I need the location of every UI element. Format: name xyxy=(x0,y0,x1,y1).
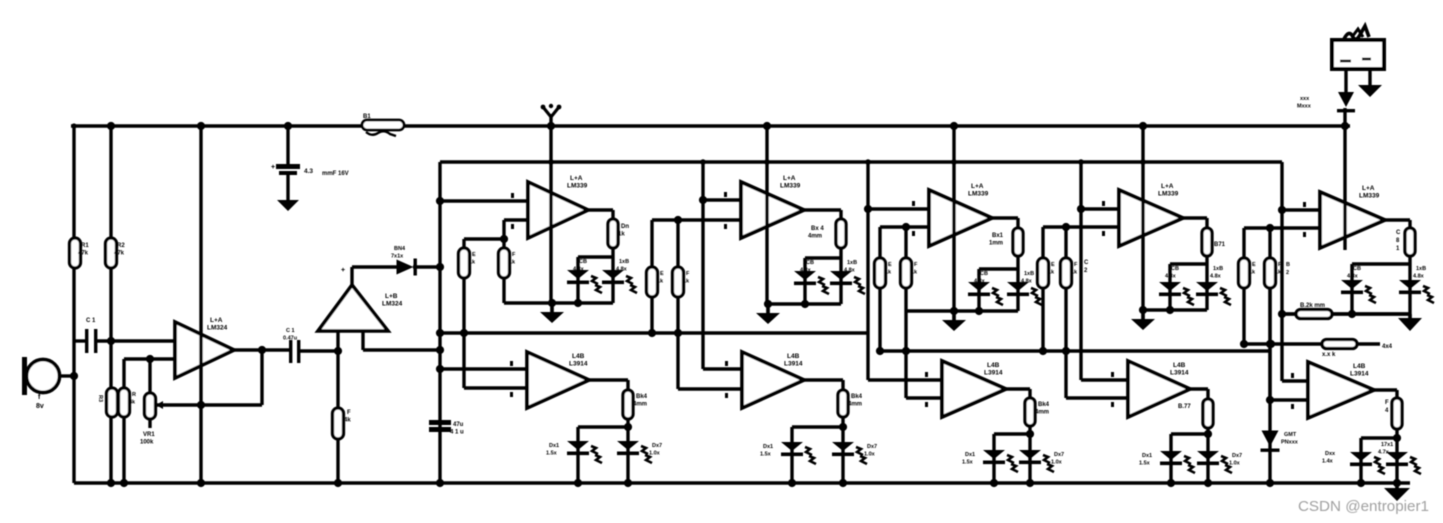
svg-text:+: + xyxy=(271,164,275,171)
svg-text:CSDN @entropier1: CSDN @entropier1 xyxy=(1298,498,1429,515)
svg-text:Dx7: Dx7 xyxy=(1232,453,1242,459)
wire U3 -input xyxy=(504,218,528,221)
svg-text:C: C xyxy=(1084,260,1089,266)
ground stage 1 xyxy=(550,303,554,312)
wire feeder - bottom stage 3 xyxy=(906,396,942,399)
svg-text:1.0x: 1.0x xyxy=(649,451,661,457)
svg-text:100k: 100k xyxy=(140,440,154,446)
diode D2 supply xyxy=(1338,92,1354,107)
LED D2 stage 1 xyxy=(567,270,589,279)
LED D21 bottom stage 5 xyxy=(1386,452,1408,461)
node top bus left corner xyxy=(71,123,76,128)
svg-text:1k: 1k xyxy=(911,270,918,276)
potentiometer VR1 xyxy=(148,359,151,393)
LED D7 stage 3 xyxy=(1007,282,1029,291)
LED D10 stage 5 xyxy=(1341,280,1363,289)
resistor R34 xyxy=(1203,399,1213,428)
op-amp U6 xyxy=(1119,190,1183,246)
svg-text:LM339: LM339 xyxy=(567,183,588,190)
wire U3 output xyxy=(588,208,613,211)
op-amp U2 buffer xyxy=(318,285,388,331)
wire vertical R4 leg xyxy=(122,359,125,483)
svg-text:C: C xyxy=(1396,230,1401,236)
wire supply through U4 xyxy=(765,126,768,304)
svg-text:4mm: 4mm xyxy=(848,402,862,408)
wire resistor row 1 xyxy=(1282,312,1296,315)
wire U11 output xyxy=(1190,387,1208,390)
svg-text:F: F xyxy=(347,410,351,416)
node divider1 on bus A xyxy=(460,329,468,337)
svg-text:L+A: L+A xyxy=(1362,185,1375,192)
LED D5 stage 2 xyxy=(830,271,852,280)
svg-text:Dx7: Dx7 xyxy=(652,443,662,449)
ground stage 3 xyxy=(952,311,956,320)
svg-text:1CB: 1CB xyxy=(977,271,988,277)
svg-text:Bx1: Bx1 xyxy=(992,233,1004,239)
svg-text:B1: B1 xyxy=(363,114,371,120)
pin marks U8 xyxy=(510,361,513,366)
svg-text:4mm: 4mm xyxy=(633,402,647,408)
svg-text:2: 2 xyxy=(1084,268,1088,274)
capacitor C2 xyxy=(289,340,292,363)
svg-text:4k: 4k xyxy=(129,400,136,406)
svg-text:8v: 8v xyxy=(36,403,44,410)
svg-text:L4B: L4B xyxy=(987,362,1000,369)
microphone MIC1 xyxy=(27,360,60,393)
wire below divider 5 xyxy=(1242,288,1245,344)
wire U7 -input xyxy=(1244,226,1320,229)
wire battery negative lead xyxy=(1368,69,1371,85)
svg-text:4.8x: 4.8x xyxy=(1413,274,1425,280)
svg-text:PNxxx: PNxxx xyxy=(1281,440,1299,446)
svg-text:Dx7: Dx7 xyxy=(1054,452,1064,458)
wire supply through U5 xyxy=(952,126,955,311)
svg-text:Bk4: Bk4 xyxy=(636,394,648,400)
wire LED box stage 5 xyxy=(1408,256,1411,264)
wire feeder - bottom stage 5 xyxy=(1270,398,1308,401)
svg-text:1xB: 1xB xyxy=(1024,271,1034,277)
wire feeder - bottom stage 2 xyxy=(678,387,742,390)
wire U7 +input xyxy=(1282,208,1320,211)
node LED cathodes stage 2 xyxy=(788,479,796,487)
svg-text:1k: 1k xyxy=(509,260,516,266)
svg-text:f: f xyxy=(38,394,41,401)
wire LED box stage 3 xyxy=(1016,256,1019,269)
LED D6 stage 3 xyxy=(968,282,990,291)
svg-text:1.0x: 1.0x xyxy=(864,452,876,458)
svg-text:1k: 1k xyxy=(1048,270,1055,276)
svg-text:1xB: 1xB xyxy=(619,259,629,265)
op-amp U5 xyxy=(929,190,992,246)
svg-text:1k: 1k xyxy=(885,270,892,276)
wire U12 output xyxy=(1374,388,1397,391)
wire U5 +input xyxy=(868,207,929,210)
LED D3 stage 1 xyxy=(602,270,624,279)
svg-text:Bx 4: Bx 4 xyxy=(811,226,824,232)
wire U1 feedback xyxy=(234,348,291,351)
svg-text:L4B: L4B xyxy=(1173,362,1186,369)
svg-text:L+A: L+A xyxy=(971,183,984,190)
svg-text:E: E xyxy=(472,252,476,258)
LED D12 bottom stage 1 xyxy=(567,441,589,450)
svg-text:L4B: L4B xyxy=(1353,363,1366,370)
svg-text:1.5x: 1.5x xyxy=(1139,461,1151,467)
wire vertical rail x440 xyxy=(438,162,441,483)
op-amp U9 xyxy=(742,352,804,408)
svg-text:Dxx: Dxx xyxy=(1325,451,1336,457)
op-amp U12 xyxy=(1308,362,1374,418)
wire feeder - bottom stage 1 xyxy=(464,386,527,389)
svg-text:1CB: 1CB xyxy=(576,259,587,265)
svg-text:Dn: Dn xyxy=(621,224,629,230)
wire C2 to U2 xyxy=(300,349,338,352)
resistor R41 horizontal xyxy=(1296,310,1332,319)
wire feeder - bottom stage 4 xyxy=(1066,396,1128,399)
wire LED box stage 4 xyxy=(1205,256,1208,264)
pin marks U4 xyxy=(724,192,727,197)
svg-text:xxx: xxx xyxy=(1300,96,1310,102)
wire U2 power xyxy=(350,267,353,285)
resistor R31 xyxy=(623,390,633,419)
LED D15 bottom stage 2 xyxy=(832,442,854,451)
svg-text:Dx1: Dx1 xyxy=(1142,453,1152,459)
wire LED box bottom stage 2 xyxy=(768,302,841,305)
wire battery positive lead xyxy=(1344,69,1347,95)
diode D1 xyxy=(397,260,414,275)
capacitor C4 electrolytic xyxy=(429,420,451,425)
pin marks U3 xyxy=(511,193,514,198)
svg-text:4: 4 xyxy=(1385,408,1389,414)
wire divider cluster 3 xyxy=(878,227,881,258)
pin marks U7 xyxy=(1303,202,1306,207)
node bus x201 bottom xyxy=(197,479,205,487)
resistor R21b xyxy=(499,248,510,278)
svg-text:Dx1: Dx1 xyxy=(965,452,975,458)
LED D20 bottom stage 5 xyxy=(1350,452,1372,461)
wire LED feed bottom stage 1 xyxy=(626,419,629,483)
wire supply through U6 xyxy=(1141,126,1144,310)
svg-text:1xB: 1xB xyxy=(847,260,857,266)
svg-text:VR1: VR1 xyxy=(143,432,155,438)
svg-text:F: F xyxy=(914,262,918,268)
resistor R22b xyxy=(673,267,684,297)
svg-text:mmF 16V: mmF 16V xyxy=(322,171,349,177)
LED D18 bottom stage 4 xyxy=(1160,451,1182,460)
resistor R23a xyxy=(875,258,886,288)
svg-text:47k: 47k xyxy=(78,251,89,257)
op-amp U7 xyxy=(1320,192,1385,248)
resistor R23b xyxy=(901,258,912,288)
svg-text:L4B: L4B xyxy=(787,353,800,360)
LED D17 bottom stage 3 xyxy=(1019,450,1041,459)
op-amp U1 xyxy=(175,322,234,378)
svg-text:Mxxx: Mxxx xyxy=(1297,104,1312,110)
wire U5 -input xyxy=(880,225,929,228)
wire U3 +input xyxy=(440,199,528,202)
svg-text:1mm: 1mm xyxy=(989,241,1003,247)
svg-text:1CB: 1CB xyxy=(1168,266,1179,272)
svg-text:LM339: LM339 xyxy=(968,191,989,198)
ground bottom right xyxy=(1395,483,1399,488)
svg-text:GMT: GMT xyxy=(1284,432,1297,438)
svg-text:2: 2 xyxy=(1286,270,1289,276)
resistor R12 feedback xyxy=(836,219,846,248)
ground under C3 xyxy=(286,198,290,202)
wire LED feed bottom stage 5 xyxy=(1395,429,1398,483)
svg-text:LM339: LM339 xyxy=(1359,193,1380,200)
svg-text:4.8x: 4.8x xyxy=(616,267,628,273)
resistor R1 xyxy=(74,126,76,238)
wire feeder + bottom stage 1 xyxy=(440,367,527,370)
LED D8 stage 4 xyxy=(1159,282,1181,291)
op-amp U10 xyxy=(942,361,1006,417)
ground stage 2 xyxy=(766,304,770,313)
svg-text:1.0x: 1.0x xyxy=(1051,460,1063,466)
svg-text:4.3x: 4.3x xyxy=(800,268,812,274)
resistor R25b xyxy=(1265,258,1276,288)
svg-text:R3: R3 xyxy=(97,395,103,402)
resistor R35 xyxy=(1392,398,1402,429)
wire U6 -input xyxy=(1043,225,1119,228)
svg-text:L3914: L3914 xyxy=(1350,371,1369,378)
svg-text:1: 1 xyxy=(1396,246,1400,252)
svg-text:x.x k: x.x k xyxy=(1322,352,1336,358)
svg-text:B71: B71 xyxy=(1214,242,1226,248)
capacitor C1 xyxy=(85,329,88,353)
svg-text:4.3x: 4.3x xyxy=(573,267,585,273)
wire LED box stage 2 xyxy=(839,248,842,258)
node x440 stage6 +input xyxy=(436,365,444,373)
svg-text:LM339: LM339 xyxy=(780,183,801,190)
node bus x440 bottom xyxy=(436,479,444,487)
wire feeder + bottom stage 4 xyxy=(1079,162,1082,380)
svg-text:1CB: 1CB xyxy=(803,260,814,266)
svg-text:4mm: 4mm xyxy=(808,234,822,240)
wire supply through U3 xyxy=(549,126,552,303)
wire divider cluster 4 xyxy=(1041,227,1044,258)
svg-text:4mm: 4mm xyxy=(1035,410,1049,416)
svg-text:4.7x: 4.7x xyxy=(1378,450,1390,456)
svg-text:4.3x: 4.3x xyxy=(1347,274,1359,280)
svg-text:4.3x: 4.3x xyxy=(974,279,986,285)
svg-text:47k: 47k xyxy=(114,251,125,257)
resistor R2 xyxy=(106,238,117,268)
svg-text:L3914: L3914 xyxy=(569,361,588,368)
resistor R14 feedback xyxy=(1202,228,1212,256)
wire feeder + bottom stage 3 xyxy=(866,162,869,380)
wire U9 output xyxy=(804,378,843,381)
wire U5 output xyxy=(992,216,1018,219)
node LED cathodes stage 4 xyxy=(1167,479,1175,487)
wire U2 base right stub xyxy=(361,331,364,350)
svg-text:0.47u: 0.47u xyxy=(283,336,297,342)
svg-text:LM324: LM324 xyxy=(207,325,228,332)
LED D19 bottom stage 4 xyxy=(1197,451,1219,460)
wire top supply bus xyxy=(71,124,1350,127)
ground stage 4 xyxy=(1141,310,1145,319)
svg-text:LM339: LM339 xyxy=(1158,191,1179,198)
svg-text:1k: 1k xyxy=(1249,270,1256,276)
svg-text:L+A: L+A xyxy=(210,317,223,324)
svg-text:1.5x: 1.5x xyxy=(760,452,772,458)
wire divider cluster 2 xyxy=(650,220,653,267)
LED D11 stage 5 xyxy=(1399,280,1421,289)
svg-text:Bk4: Bk4 xyxy=(1038,402,1050,408)
wire LED feed bottom stage 2 xyxy=(841,417,844,483)
svg-text:1k: 1k xyxy=(618,232,625,238)
svg-text:1k: 1k xyxy=(657,279,664,285)
svg-text:R2: R2 xyxy=(117,243,125,249)
svg-text:4.8x: 4.8x xyxy=(844,268,856,274)
wire U4 +input xyxy=(703,198,741,201)
svg-text:4.3x: 4.3x xyxy=(1165,274,1177,280)
svg-text:4 1 u: 4 1 u xyxy=(450,430,464,436)
svg-text:B: B xyxy=(1286,262,1290,268)
svg-text:E: E xyxy=(1252,262,1256,268)
wire U6 +input xyxy=(1081,207,1119,210)
svg-text:1.5x: 1.5x xyxy=(546,451,558,457)
svg-text:8: 8 xyxy=(1396,238,1400,244)
wire vertical through U1 xyxy=(199,126,202,483)
wire below divider 1 xyxy=(462,278,465,333)
LED D9 stage 4 xyxy=(1196,282,1218,291)
LED D4 stage 2 xyxy=(794,271,816,280)
svg-text:C 1: C 1 xyxy=(86,318,96,324)
wire feeder + bottom stage 2 xyxy=(701,162,704,369)
wire below divider 2 xyxy=(650,297,653,333)
svg-text:17x1: 17x1 xyxy=(1381,442,1393,448)
svg-text:4x4: 4x4 xyxy=(1382,344,1393,350)
resistor R25a xyxy=(1239,258,1250,288)
node LED cathodes stage 1 xyxy=(574,479,582,487)
resistor R4 xyxy=(119,388,130,417)
svg-text:B.77: B.77 xyxy=(1178,404,1191,410)
svg-text:1.5x: 1.5x xyxy=(962,460,974,466)
resistor R42 horizontal xyxy=(1322,340,1357,349)
pin marks U10 xyxy=(925,372,928,377)
pin marks U11 xyxy=(1111,372,1114,377)
resistor R15 feedback xyxy=(1405,228,1415,256)
wire second bus xyxy=(440,160,1281,163)
wire U10 output xyxy=(1006,387,1030,390)
wire vertical rail 2 xyxy=(109,126,112,483)
node LED cathodes stage 3 xyxy=(990,479,998,487)
node LED cathodes stage 5 xyxy=(1357,479,1365,487)
wire vertical left rail xyxy=(72,126,75,483)
wire LED box stage 1 xyxy=(611,248,614,257)
wire U4 -input xyxy=(652,218,741,221)
svg-text:F: F xyxy=(686,271,690,277)
wire divider1 to stage6 -input xyxy=(462,333,465,388)
wire inter-stage bus B xyxy=(880,349,1271,352)
wire LED feed bottom stage 4 xyxy=(1206,428,1209,483)
svg-text:4.8x: 4.8x xyxy=(1210,274,1222,280)
svg-text:4k: 4k xyxy=(344,418,351,424)
svg-text:L3914: L3914 xyxy=(1170,370,1189,377)
op-amp U3 xyxy=(528,182,588,238)
LED D13 bottom stage 1 xyxy=(617,441,639,450)
supply fork V+ xyxy=(543,107,559,117)
wire U2 base left stub xyxy=(336,331,339,351)
ground battery xyxy=(1368,83,1372,87)
wire LED box bottom stage 1 xyxy=(504,301,613,304)
wire bottom ground bus xyxy=(74,481,1410,484)
wire vertical rail x1270 lower xyxy=(1268,288,1271,483)
wire inter-stage bus A xyxy=(440,331,868,334)
svg-text:L+A: L+A xyxy=(783,175,796,182)
wire LED box bottom stage 4 xyxy=(1143,308,1207,311)
wire feeder + bottom stage 5 xyxy=(1280,162,1283,381)
wire below divider 3 xyxy=(878,288,881,351)
svg-text:F: F xyxy=(1385,400,1389,406)
svg-text:E: E xyxy=(888,262,892,268)
svg-text:4.8x: 4.8x xyxy=(1021,279,1033,285)
svg-text:L+B: L+B xyxy=(385,293,398,300)
wire below divider 4 xyxy=(1041,288,1044,351)
ground stage 5 xyxy=(1408,314,1412,318)
svg-text:1.0x: 1.0x xyxy=(1229,461,1241,467)
svg-text:L4B: L4B xyxy=(572,353,585,360)
svg-text:Dx1: Dx1 xyxy=(763,444,773,450)
resistor R33 xyxy=(1025,398,1035,426)
svg-text:1k: 1k xyxy=(683,279,690,285)
svg-text:R: R xyxy=(132,392,136,398)
resistor R21a xyxy=(459,248,470,278)
wire U7 output xyxy=(1385,218,1410,221)
op-amp U4 xyxy=(741,182,804,238)
svg-text:E: E xyxy=(1051,262,1055,268)
svg-text:F: F xyxy=(1074,262,1078,268)
svg-text:1.4x: 1.4x xyxy=(1322,459,1334,465)
wire supply through U7 xyxy=(1343,108,1346,250)
svg-text:Dx7: Dx7 xyxy=(867,444,877,450)
wire second bus right corner xyxy=(1281,160,1282,163)
resistor R22a xyxy=(647,267,658,297)
LED D14 bottom stage 2 xyxy=(781,442,803,451)
svg-text:Dx1: Dx1 xyxy=(549,443,559,449)
svg-text:1k: 1k xyxy=(469,260,476,266)
svg-text:L3914: L3914 xyxy=(784,361,803,368)
op-amp U8 xyxy=(527,352,589,408)
pin marks U12 xyxy=(1291,373,1294,378)
resistor R3 xyxy=(107,388,118,417)
svg-text:L+A: L+A xyxy=(1161,183,1174,190)
pin marks U6 xyxy=(1102,201,1105,206)
node bus x111 bottom xyxy=(107,479,115,487)
wire U4 output xyxy=(804,208,841,211)
svg-text:47u: 47u xyxy=(453,422,464,428)
op-amp U11 xyxy=(1128,361,1190,417)
svg-text:E: E xyxy=(660,271,664,277)
wire U8 output xyxy=(589,378,628,381)
svg-text:F: F xyxy=(512,252,516,258)
svg-text:4.3: 4.3 xyxy=(304,168,313,175)
wire divider cluster 5 xyxy=(1242,228,1245,258)
svg-text:B.2k mm: B.2k mm xyxy=(1300,303,1325,309)
pin marks U5 xyxy=(912,201,915,206)
wire LED box bottom stage 3 xyxy=(906,309,1018,312)
svg-text:+: + xyxy=(341,267,345,274)
resistor R11 feedback xyxy=(608,219,618,248)
svg-text:BN4: BN4 xyxy=(394,246,406,252)
svg-text:7x1x: 7x1x xyxy=(391,254,404,260)
diode D3 on rail xyxy=(1262,431,1279,447)
resistor R5 xyxy=(336,351,339,408)
wire LED feed bottom stage 3 xyxy=(1028,426,1031,483)
svg-text:LM324: LM324 xyxy=(382,301,403,308)
battery BT1 connector xyxy=(1332,40,1384,69)
wire U1 +input xyxy=(74,339,85,342)
